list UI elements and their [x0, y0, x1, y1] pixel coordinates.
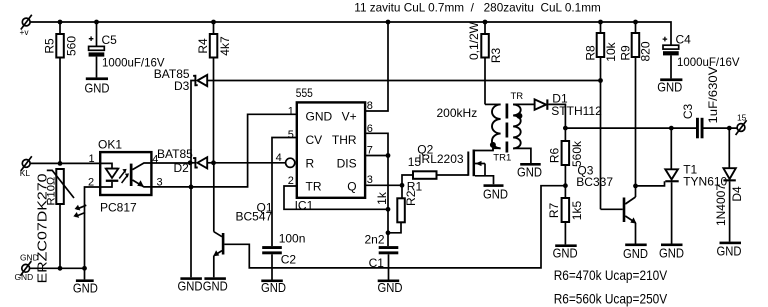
capacitor C4 — [663, 33, 740, 79]
svg-text:CV: CV — [306, 133, 323, 147]
svg-text:C3: C3 — [681, 104, 695, 120]
terminal GND left — [15, 253, 39, 282]
wire Q1 base feedback — [224, 186, 565, 268]
node pin2-GND — [82, 266, 87, 271]
node rail-R9 — [633, 20, 638, 25]
resistor R8 — [584, 22, 619, 209]
wire 555 DIS stub — [365, 155, 388, 157]
resistor R2 — [375, 185, 418, 233]
svg-text:C4: C4 — [676, 33, 692, 47]
ground TR secondary — [517, 163, 542, 180]
svg-text:GND: GND — [657, 80, 682, 95]
capacitor C1 2n2 — [365, 233, 399, 280]
svg-text:GND: GND — [20, 253, 39, 263]
svg-text:GND: GND — [73, 280, 98, 295]
wire R node to 555 R pin — [214, 162, 286, 164]
svg-text:STTH112: STTH112 — [551, 104, 602, 118]
diode D2 BAT85 — [157, 147, 214, 175]
svg-text:TR: TR — [511, 91, 524, 102]
wire 555 CV to C2 — [272, 138, 297, 247]
wire 555 TR — [284, 186, 388, 209]
svg-text:BC547: BC547 — [236, 210, 273, 224]
light arrows R10 — [72, 205, 86, 220]
svg-text:R3: R3 — [489, 48, 503, 64]
svg-text:5: 5 — [288, 129, 294, 141]
wire OK1 pin4 to D2 — [151, 162, 190, 164]
ground C4 — [657, 78, 682, 94]
node TR-C1 — [386, 207, 391, 212]
svg-text:560: 560 — [65, 36, 79, 56]
wire GND terminal run — [30, 267, 85, 269]
capacitor C5 — [89, 22, 165, 77]
opto-coupler OK1 PC817 — [88, 137, 163, 214]
resistor R4 — [196, 22, 232, 163]
node rail-V+ — [386, 20, 391, 25]
ground C5 — [85, 77, 110, 95]
ic 555 IC1 — [276, 86, 373, 213]
svg-text:R4: R4 — [196, 38, 210, 54]
wire 555 Q out — [365, 184, 402, 186]
svg-text:OK1: OK1 — [98, 137, 122, 151]
svg-text:TR1: TR1 — [493, 153, 511, 164]
svg-text:1: 1 — [89, 153, 95, 165]
transformer TR secondary — [493, 91, 534, 163]
svg-text:4k7: 4k7 — [218, 36, 232, 56]
ground R7 — [553, 244, 578, 260]
thyristor T1 TYN610 — [665, 128, 727, 243]
svg-text:11 zavitu CuL 0.7mm / 280za: 11 zavitu CuL 0.7mm / 280zavitu CuL 0.1m… — [354, 1, 601, 15]
diode D4 1N4007 — [714, 128, 744, 242]
svg-text:1: 1 — [288, 105, 294, 117]
svg-text:+v: +v — [20, 27, 30, 37]
terminal 15 — [736, 113, 747, 136]
wire 555 V+ — [365, 22, 388, 111]
transformer TR primary — [485, 104, 501, 150]
svg-text:PC817: PC817 — [100, 201, 137, 215]
varistor R10 ERZC07DK270 — [35, 169, 74, 284]
transistor Q3 BC337 — [576, 164, 636, 244]
ground Q1 emitter — [203, 277, 228, 293]
resistor R6 — [548, 128, 585, 198]
svg-text:BC337: BC337 — [576, 175, 613, 189]
svg-text:1000uF/16V: 1000uF/16V — [677, 55, 740, 69]
mosfet Q2 IRL2203 — [417, 142, 493, 184]
svg-text:GND: GND — [306, 110, 333, 124]
node R6-R7 — [563, 183, 568, 188]
node D4 — [727, 126, 732, 131]
svg-text:D4: D4 — [730, 186, 744, 202]
wire KL to OK1 pin1 — [30, 162, 100, 164]
svg-text:200kHz: 200kHz — [437, 106, 478, 120]
wire R8 to Q3 base — [601, 208, 623, 210]
wire OK1 pin3 to 555 GND — [151, 114, 296, 187]
label 200kHz — [437, 106, 478, 120]
node D1-R6 — [563, 126, 568, 131]
svg-text:4: 4 — [276, 152, 282, 164]
svg-text:R7: R7 — [547, 203, 561, 219]
svg-text:2n2: 2n2 — [365, 233, 385, 247]
node R10-GND — [58, 266, 63, 271]
svg-text:IC1: IC1 — [295, 199, 314, 213]
node Q3-R9-gate — [633, 184, 638, 189]
diode D1 STTH112 — [535, 92, 602, 128]
svg-text:D2: D2 — [174, 161, 190, 175]
svg-text:C1: C1 — [369, 256, 385, 270]
resistor R1 — [402, 155, 468, 193]
svg-text:D3: D3 — [174, 79, 190, 93]
svg-text:GND: GND — [378, 280, 403, 295]
svg-text:3: 3 — [367, 174, 373, 186]
svg-text:C2: C2 — [281, 253, 297, 267]
svg-text:GND: GND — [203, 279, 228, 294]
ground Q3 emitter — [623, 244, 648, 261]
svg-text:100n: 100n — [279, 231, 306, 245]
svg-text:GND: GND — [717, 244, 742, 259]
svg-text:GND: GND — [261, 280, 286, 295]
svg-text:1k5: 1k5 — [570, 201, 584, 221]
capacitor C2 100n — [262, 231, 305, 279]
capacitor C3 — [681, 67, 737, 139]
wire OK1 pin2 — [85, 187, 101, 268]
svg-text:KL: KL — [20, 168, 31, 178]
svg-text:BAT85: BAT85 — [157, 147, 193, 161]
node Q-R1-R2 — [400, 183, 405, 188]
svg-text:15: 15 — [737, 113, 747, 123]
svg-text:GND: GND — [15, 272, 34, 282]
svg-text:R8: R8 — [584, 45, 598, 61]
resistor R3 — [467, 21, 503, 104]
svg-text:GND: GND — [623, 246, 648, 261]
title note — [354, 1, 601, 15]
svg-text:TR: TR — [306, 180, 322, 194]
note R6 options — [554, 267, 668, 307]
node THR-DIS — [386, 153, 391, 158]
ground Q2 source — [483, 184, 508, 201]
diode D3 BAT85 — [154, 67, 214, 163]
svg-text:V+: V+ — [342, 110, 357, 124]
svg-text:R6=470k Ucap=210V: R6=470k Ucap=210V — [554, 267, 668, 283]
resistor R5 — [43, 22, 79, 163]
wire feed line y80 — [214, 80, 601, 82]
svg-text:DIS: DIS — [337, 156, 357, 170]
svg-text:10k: 10k — [604, 41, 618, 61]
node rail-R3 — [483, 20, 488, 25]
svg-text:GND: GND — [483, 186, 508, 201]
node rail-C5 — [94, 20, 99, 25]
svg-text:R1: R1 — [407, 179, 423, 193]
svg-text:R9: R9 — [619, 45, 633, 61]
terminal KL — [20, 156, 32, 178]
svg-text:R10Ω: R10Ω — [45, 176, 57, 206]
svg-text:820: 820 — [639, 41, 653, 61]
wire top rail — [30, 22, 671, 46]
ground C2 — [261, 280, 286, 296]
node R8 feed — [598, 78, 603, 83]
svg-text:555: 555 — [296, 86, 313, 100]
node rail-R5 — [58, 20, 63, 25]
node T1 anode — [669, 126, 674, 131]
svg-text:GND: GND — [553, 245, 578, 260]
svg-text:0,1/2W: 0,1/2W — [467, 21, 481, 60]
node rail-R4 — [211, 20, 216, 25]
ground OK1 pin2 — [73, 268, 98, 295]
ground T1 — [659, 244, 684, 261]
transformer TR core — [506, 104, 509, 153]
transistor Q1 BC547 — [213, 163, 273, 277]
svg-text:GND: GND — [178, 279, 203, 294]
svg-text:GND: GND — [85, 81, 110, 96]
svg-text:R5: R5 — [43, 38, 57, 54]
terminal +v — [20, 15, 32, 37]
ground C1 — [378, 280, 403, 296]
wire D2 gnd branch — [190, 163, 192, 277]
svg-text:1N4007: 1N4007 — [714, 184, 728, 226]
node R5-R10-KL — [58, 161, 63, 166]
svg-text:1k: 1k — [375, 191, 389, 205]
wire HV line — [565, 127, 696, 129]
svg-text:R6: R6 — [548, 148, 562, 164]
svg-text:R6=560k Ucap=250V: R6=560k Ucap=250V — [554, 291, 668, 307]
resistor R7 — [547, 198, 584, 244]
svg-text:1uF/630V: 1uF/630V — [706, 67, 720, 124]
svg-text:THR: THR — [332, 133, 357, 147]
resistor R9 — [619, 22, 653, 186]
svg-text:C5: C5 — [102, 33, 118, 47]
svg-text:IRL2203: IRL2203 — [418, 152, 464, 166]
wire T1 gate — [636, 181, 665, 186]
node D2-anode-R4 — [211, 160, 216, 165]
node D2-cathode — [188, 160, 193, 165]
svg-text:GND: GND — [659, 245, 684, 260]
svg-text:GND: GND — [517, 165, 542, 180]
svg-text:Q: Q — [347, 180, 356, 194]
ground D4 — [717, 242, 742, 259]
node R2-C1 — [386, 230, 391, 235]
ground branch D2 — [178, 277, 203, 293]
node rail-R8 — [598, 20, 603, 25]
node pin3-gnd — [189, 185, 194, 190]
wire 555 THR/DIS to C1 — [365, 133, 388, 246]
svg-text:R: R — [306, 156, 315, 170]
